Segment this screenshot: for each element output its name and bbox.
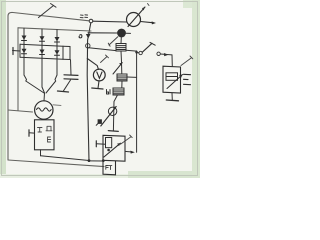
pointer 3 — [181, 58, 192, 66]
bridge right bracket — [63, 46, 70, 59]
junction dot — [88, 159, 91, 162]
stator winding middle — [42, 87, 45, 93]
green scan edge left — [0, 0, 6, 178]
diode VD4 — [22, 49, 27, 54]
rectifier phase line A — [23, 28, 25, 75]
wire R1 to right vertical — [126, 49, 137, 52]
terminal glyph 2 — [46, 126, 52, 131]
upper bridge bus — [20, 44, 63, 46]
relay contact arm — [104, 143, 121, 157]
wire end terminal bar — [108, 130, 118, 133]
bridge left end bar — [19, 44, 21, 57]
inner unit top edge — [18, 28, 91, 31]
commutator squiggle — [37, 108, 52, 111]
pointer 2 — [109, 37, 118, 45]
left terminal stub — [13, 50, 21, 53]
generator armature circle — [35, 101, 53, 119]
outer enclosure top edge with rounded corner — [8, 12, 89, 20]
label blob — [96, 124, 98, 126]
rectifier phase line C — [56, 30, 58, 75]
green scan edge top-right — [183, 0, 200, 8]
capacitor bottom lead — [64, 80, 71, 91]
coil feed terminal bar — [95, 141, 97, 147]
generator bottom lead — [40, 150, 42, 156]
regulator inner element — [166, 73, 178, 81]
wire bus to R1 — [88, 48, 116, 51]
label 6 — [79, 35, 82, 38]
switch S2 right contact — [157, 52, 160, 55]
battery tick long 1 — [184, 73, 191, 75]
generator left stub — [29, 132, 35, 134]
wire ball to resistor R1 — [120, 37, 122, 43]
relay coil — [106, 138, 112, 148]
battery tick short — [184, 78, 189, 80]
switch S1 on top edge — [39, 6, 54, 18]
rheostat circle — [108, 107, 116, 115]
generator field box — [35, 120, 55, 150]
regulator ground bar — [166, 99, 178, 102]
capacitor C plates — [64, 74, 78, 77]
scan frame line — [2, 2, 198, 176]
inner unit bottom-left edge — [8, 110, 33, 112]
green scan edge bottom — [128, 171, 200, 178]
resistor R2 hatched — [117, 74, 127, 81]
label 1 — [148, 4, 150, 6]
rheostat arrow — [101, 107, 116, 127]
capacitor ground bar — [58, 91, 69, 92]
circled terminal on bus — [86, 44, 90, 48]
wire to R2 — [121, 62, 123, 74]
ball node 2 — [117, 29, 126, 38]
current-direction diode mark on bus — [86, 34, 91, 39]
lower box glyph — [106, 166, 112, 170]
voltmeter lower lead — [98, 81, 99, 88]
ammeter A circle — [127, 13, 141, 27]
diode VD2 — [40, 36, 45, 41]
switch S2 lever — [142, 43, 152, 52]
outer enclosure bottom edge — [8, 160, 104, 167]
capacitor top lead — [70, 60, 73, 75]
wire R2 down — [121, 81, 123, 88]
ball right stub — [126, 32, 131, 34]
glyph ы — [107, 90, 111, 95]
lower bridge bus — [20, 57, 63, 59]
stator winding left — [24, 75, 44, 93]
diode VD3 — [55, 37, 60, 42]
junction dot on right bus — [135, 51, 138, 54]
terminal bar under voltmeter — [92, 88, 103, 89]
pointer 5 — [101, 57, 108, 63]
paper background — [0, 0, 200, 178]
regulator bottom lead — [171, 93, 173, 100]
voltmeter V — [93, 69, 105, 81]
coil bottom dot — [107, 149, 110, 152]
right vertical bus — [136, 51, 138, 152]
left terminal bar — [12, 48, 14, 55]
junction dot at box corner — [102, 159, 105, 162]
diode VD1 — [22, 36, 27, 41]
inner unit left edge — [17, 28, 19, 111]
wire corner down — [171, 55, 173, 67]
voltmeter branch diagonal — [87, 59, 98, 70]
switch S2 left contact — [139, 51, 142, 54]
rectifier phase line B — [41, 29, 43, 87]
regulator variable arrow — [167, 75, 183, 89]
resistor R1 hatched — [116, 44, 126, 52]
diode VD5 — [40, 50, 45, 55]
wire bus to ball — [88, 32, 117, 34]
stator winding right — [46, 75, 57, 93]
main vertical bus from node — [87, 23, 91, 161]
wire R3 down — [113, 95, 117, 131]
outer enclosure left edge — [7, 16, 9, 160]
arrowhead on wire — [164, 53, 169, 56]
node (+) junction — [89, 19, 93, 23]
relay box — [103, 135, 125, 161]
wire node to ammeter — [93, 20, 127, 23]
relay lower box — [103, 161, 116, 175]
wire S2 to regulator — [160, 53, 172, 56]
generator right stub — [53, 104, 61, 107]
variable arrow over R2 — [113, 63, 122, 74]
battery tick long 2 — [184, 83, 191, 85]
ammeter pointer arrow — [128, 7, 145, 27]
wire right of ammeter with arrowhead — [141, 22, 153, 23]
regulator box — [163, 66, 181, 93]
wire to switch S2 — [137, 52, 139, 54]
wire R2 right — [127, 76, 137, 78]
coil left feed — [96, 143, 105, 145]
resistor R3 hatched — [113, 88, 124, 95]
green scan edge right — [192, 0, 200, 178]
pointer 4 — [120, 137, 131, 144]
terminal glyph 3 — [48, 137, 51, 142]
star point lead — [43, 93, 46, 101]
terminal glyph 1 — [38, 128, 43, 133]
wire R1 down — [120, 51, 123, 62]
wire generator to relay bus — [41, 156, 90, 161]
wire junction to relay box — [90, 160, 103, 162]
diode VD6 — [55, 50, 60, 55]
relay output arrowhead — [130, 151, 134, 154]
label 9+6 — [80, 15, 87, 18]
relay output wire — [125, 150, 131, 153]
generator left terminal bar — [28, 130, 30, 136]
bridge right end bar — [62, 46, 64, 59]
